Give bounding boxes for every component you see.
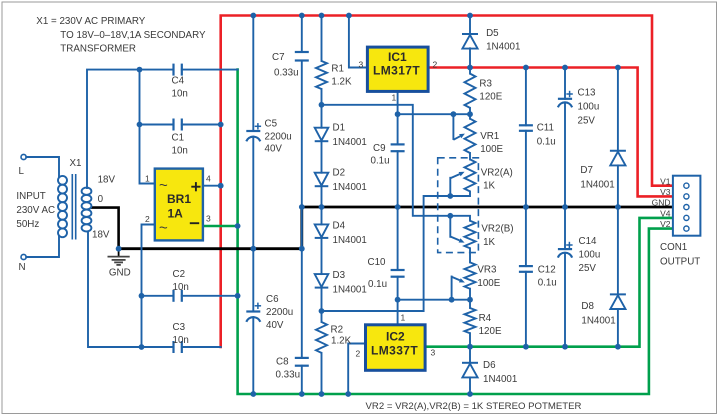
wire: secondary bottom to C3 row <box>88 232 142 348</box>
svg-text:D6: D6 <box>483 360 496 371</box>
svg-text:C11: C11 <box>537 123 554 134</box>
svg-text:2: 2 <box>433 59 438 69</box>
svg-text:1: 1 <box>401 313 406 323</box>
wire: D5 column <box>469 16 471 35</box>
wire: green -unreg from BR1 pin3/C4 down left side and along bottom to V2 <box>238 70 673 394</box>
capacitor C8 <box>295 358 309 366</box>
VR2(A) wiper arrow <box>450 172 464 179</box>
diode D3 <box>315 274 329 288</box>
svg-text:100u: 100u <box>578 102 600 113</box>
wire: VR2(B) to VR3 <box>469 248 471 262</box>
connector CON1 <box>673 176 701 236</box>
capacitor C6 electrolytic <box>246 312 260 322</box>
wire: C5/C6 column <box>252 16 254 132</box>
wire: C2 leads <box>142 295 174 297</box>
svg-text:D5: D5 <box>486 28 499 39</box>
svg-text:V2: V2 <box>660 219 671 229</box>
svg-text:C12: C12 <box>538 265 556 276</box>
potentiometer VR3 <box>465 262 476 288</box>
transformer X1 secondary coil <box>82 188 92 232</box>
svg-text:LM317T: LM317T <box>373 64 420 78</box>
wire: VR3 wiper rise <box>451 277 453 300</box>
wire: C3 leads <box>142 346 174 348</box>
svg-text:4: 4 <box>206 174 211 184</box>
wire: N terminal to primary bottom <box>26 237 59 258</box>
svg-text:2: 2 <box>356 349 361 359</box>
wire: R4 to green row <box>469 333 471 347</box>
svg-text:TRANSFORMER: TRANSFORMER <box>60 44 136 55</box>
wire: transformer centre tap to ground <box>92 208 119 249</box>
svg-text:C6: C6 <box>266 294 279 305</box>
svg-text:3: 3 <box>206 214 211 224</box>
bridge rectifier BR1 <box>145 169 211 241</box>
svg-text:3: 3 <box>359 59 364 69</box>
capacitor C3 <box>174 341 182 353</box>
VR2(B) wiper arrow <box>450 237 464 243</box>
wire: L terminal to primary top <box>26 157 59 177</box>
wire: R3 top lead <box>469 68 471 74</box>
svg-text:1N4001: 1N4001 <box>581 316 615 327</box>
wire: C7/C8 column <box>301 16 303 53</box>
diode D6 <box>462 363 478 378</box>
svg-text:C8: C8 <box>276 357 289 368</box>
svg-text:10n: 10n <box>172 89 188 100</box>
svg-text:0.1u: 0.1u <box>371 156 390 167</box>
svg-text:C13: C13 <box>578 88 597 99</box>
potentiometer VR2(A) <box>465 159 476 191</box>
svg-text:D1: D1 <box>333 123 346 134</box>
capacitor C7 <box>295 52 309 61</box>
svg-text:0.1u: 0.1u <box>538 278 557 289</box>
svg-text:INPUT: INPUT <box>16 191 45 202</box>
svg-text:10n: 10n <box>173 335 189 346</box>
svg-text:X1: X1 <box>70 158 82 169</box>
svg-text:GND: GND <box>109 268 131 279</box>
resistor R4 <box>465 308 476 333</box>
svg-text:18V: 18V <box>98 175 116 186</box>
svg-text:C10: C10 <box>368 257 387 268</box>
svg-text:1N4001: 1N4001 <box>580 180 614 191</box>
stereo pot gang dashed box <box>438 158 479 253</box>
svg-text:2200u: 2200u <box>265 132 292 143</box>
transformer X1 primary coil <box>58 176 67 237</box>
wire: green BR1 pin3 stub <box>203 225 238 228</box>
svg-text:R3: R3 <box>479 79 492 90</box>
diode D7 <box>610 151 626 166</box>
svg-text:C1: C1 <box>172 133 185 144</box>
svg-text:0.1u: 0.1u <box>368 279 387 290</box>
wire: IC2 pin2 to green rail <box>348 344 366 395</box>
svg-text:120E: 120E <box>479 92 502 103</box>
diode D5 <box>462 34 478 49</box>
svg-text:V1: V1 <box>660 176 671 186</box>
svg-text:D4: D4 <box>333 221 346 232</box>
svg-text:1: 1 <box>392 93 397 103</box>
wire: ground bus <box>119 207 673 249</box>
svg-text:VR2(A): VR2(A) <box>481 168 513 179</box>
svg-text:C2: C2 <box>173 269 186 280</box>
svg-text:C3: C3 <box>173 322 186 333</box>
wire: R3 to VR1 <box>469 108 471 119</box>
svg-text:VR1: VR1 <box>480 131 499 142</box>
svg-text:3: 3 <box>431 348 436 358</box>
svg-text:50Hz: 50Hz <box>16 219 39 230</box>
svg-text:100E: 100E <box>477 278 500 289</box>
resistor R1 <box>316 61 327 89</box>
svg-text:D3: D3 <box>333 270 346 281</box>
diode D1 <box>315 128 329 142</box>
wire: top rail to IC1 pin3 <box>349 16 368 68</box>
wire: VR3 to R4 <box>469 289 471 308</box>
svg-text:C7: C7 <box>272 52 285 63</box>
terminal L <box>21 154 26 159</box>
svg-text:C4: C4 <box>172 76 185 87</box>
svg-text:0: 0 <box>98 194 104 205</box>
svg-text:10n: 10n <box>172 146 188 157</box>
svg-text:R1: R1 <box>331 64 344 75</box>
svg-text:TO 18V–0–18V,1A SECONDARY: TO 18V–0–18V,1A SECONDARY <box>60 30 206 41</box>
svg-text:C9: C9 <box>373 143 386 154</box>
svg-text:D2: D2 <box>333 168 346 179</box>
svg-text:0.33u: 0.33u <box>276 370 301 381</box>
VR1 wiper arrow <box>453 134 465 140</box>
VR3 wiper arrow <box>452 277 465 283</box>
wire: left vertical to BR1 pin 1 <box>140 70 155 184</box>
capacitor C10 <box>391 270 405 277</box>
svg-text:LM337T: LM337T <box>371 344 418 358</box>
svg-text:R4: R4 <box>479 313 492 324</box>
svg-text:D7: D7 <box>580 165 593 176</box>
capacitor C2 <box>174 290 182 302</box>
wire: VR2(B) wiper <box>449 216 451 237</box>
svg-text:1: 1 <box>145 174 150 184</box>
svg-text:1A: 1A <box>168 207 184 221</box>
wire: D3/R2 node across to VR2(A) <box>322 191 471 311</box>
svg-text:25V: 25V <box>578 116 596 127</box>
svg-text:BR1: BR1 <box>167 192 191 206</box>
regulator IC1 LM317T <box>359 47 438 102</box>
capacitor C4 <box>174 64 182 76</box>
terminal N <box>21 254 26 259</box>
transformer X1 core <box>72 174 75 240</box>
svg-text:C14: C14 <box>579 236 598 247</box>
svg-text:IC2: IC2 <box>386 330 405 344</box>
wire: VR1 wiper drop <box>452 114 454 139</box>
potentiometer VR2(B) <box>465 221 476 249</box>
svg-text:VR3: VR3 <box>477 265 497 276</box>
capacitor C1 <box>174 119 182 131</box>
svg-text:L: L <box>19 166 25 177</box>
wire: C11/C12 column <box>525 68 527 126</box>
resistor R2 <box>316 322 327 353</box>
svg-text:VR2 = VR2(A),VR2(B) = 1K STERE: VR2 = VR2(A),VR2(B) = 1K STEREO POTMETER <box>366 401 582 412</box>
svg-text:40V: 40V <box>265 144 283 155</box>
svg-text:1N4001: 1N4001 <box>483 374 517 385</box>
svg-text:1K: 1K <box>483 237 495 248</box>
wire: ADJ1 row <box>398 113 470 115</box>
svg-text:IC1: IC1 <box>388 50 407 64</box>
wire: secondary top to C4/C1/BR1-pin1 vertical <box>87 70 140 188</box>
svg-text:1N4001: 1N4001 <box>333 285 367 296</box>
capacitor C9 <box>391 144 405 151</box>
svg-text:VR2(B): VR2(B) <box>481 224 513 235</box>
svg-text:120E: 120E <box>479 326 502 337</box>
svg-text:C5: C5 <box>265 119 278 130</box>
diode D8 <box>610 294 626 309</box>
wire: C4 right lead to green <box>182 69 238 71</box>
capacitor C12 <box>519 266 533 272</box>
capacitor C11 <box>519 125 533 131</box>
wire: C1 right lead to red <box>182 124 221 126</box>
wire: IC1 pin1/C9/C10/IC2 pin1 column <box>397 91 399 144</box>
diode D4 <box>315 224 329 238</box>
svg-text:40V: 40V <box>266 320 284 331</box>
svg-text:1N4001: 1N4001 <box>333 137 367 148</box>
svg-text:OUTPUT: OUTPUT <box>660 257 700 268</box>
wire: D7 column <box>617 68 619 151</box>
wire: D8 column <box>617 207 619 294</box>
svg-text:CON1: CON1 <box>660 242 687 253</box>
svg-text:R2: R2 <box>331 325 344 336</box>
wire: D6 column <box>469 347 471 363</box>
svg-text:0.33u: 0.33u <box>274 68 299 79</box>
svg-text:0.1u: 0.1u <box>537 137 556 148</box>
svg-text:2: 2 <box>145 214 150 224</box>
svg-text:D8: D8 <box>581 301 594 312</box>
capacitor C5 electrolytic <box>246 131 260 141</box>
wire: C4 left lead <box>140 69 174 71</box>
svg-text:18V: 18V <box>92 230 110 241</box>
wire: C13/C14 column <box>564 68 566 99</box>
diode D2 <box>315 173 329 187</box>
wire: red +V regulated from IC1 pin2 to V3 <box>428 68 673 197</box>
wire: BR1 pin4 to red riser <box>203 185 221 187</box>
BLUE WIRES <box>26 16 618 395</box>
plus signs for electrolytics <box>255 91 573 309</box>
svg-text:100E: 100E <box>480 144 503 155</box>
wire: BR1 pin2 to lower-left vertical <box>142 225 155 348</box>
svg-text:2200u: 2200u <box>266 307 293 318</box>
svg-text:25V: 25V <box>579 263 597 274</box>
resistor R3 <box>465 74 476 108</box>
wire: C1 left lead <box>140 124 174 126</box>
svg-text:~: ~ <box>159 220 168 237</box>
svg-text:1N4001: 1N4001 <box>333 235 367 246</box>
wire: red +unreg rail from BR1 pin4 riser across top to V1 <box>221 16 673 348</box>
regulator IC2 LM337T <box>356 313 436 371</box>
wire: VR1 to VR2(A) <box>469 153 471 159</box>
wire: R1 bottom node across to VR2(B) <box>322 105 471 221</box>
svg-text:1K: 1K <box>483 181 495 192</box>
svg-text:V4: V4 <box>660 209 671 219</box>
svg-text:1.2K: 1.2K <box>331 77 352 88</box>
svg-text:1N4001: 1N4001 <box>486 42 520 53</box>
wire: ADJ2 row <box>398 299 470 301</box>
capacitor C14 electrolytic <box>558 249 572 258</box>
capacitor C13 electrolytic <box>558 99 572 108</box>
ground symbol <box>108 249 130 265</box>
wire: R1/D1/D2 and D4/D3/R2 column <box>321 16 323 62</box>
svg-text:N: N <box>19 262 26 273</box>
svg-text:100u: 100u <box>579 250 601 261</box>
wire: green -V regulated from IC2 pin3 to V4 <box>425 218 673 347</box>
potentiometer VR1 <box>465 119 476 153</box>
svg-text:GND: GND <box>652 198 671 208</box>
svg-text:1.2K: 1.2K <box>331 336 352 347</box>
svg-text:V3: V3 <box>660 187 671 197</box>
wire: VR2(A) wiper <box>449 178 451 196</box>
svg-text:X1 = 230V AC PRIMARY: X1 = 230V AC PRIMARY <box>36 16 145 27</box>
svg-text:230V AC: 230V AC <box>16 205 55 216</box>
svg-text:1N4001: 1N4001 <box>333 182 367 193</box>
svg-text:10n: 10n <box>173 282 189 293</box>
